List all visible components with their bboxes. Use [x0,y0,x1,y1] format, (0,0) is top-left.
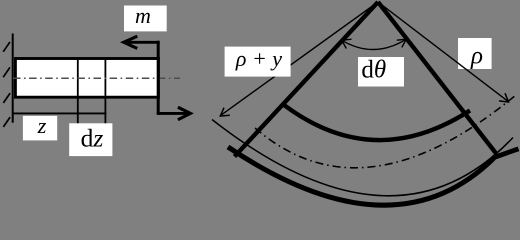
svg-text:ρ: ρ [470,43,483,70]
neutral axis arc (dash-dot) [255,95,517,168]
wall hatch 3 [3,93,10,103]
moment arrow bottom head [178,107,191,120]
label box m [124,6,167,32]
moment bracket vertical [157,41,160,115]
wall hatch 4 [3,117,10,127]
wall hatch 2 [3,67,10,77]
svg-text:z: z [37,113,47,138]
svg-text:ρ + y: ρ + y [235,46,282,71]
moment arrow bottom shaft [157,112,188,115]
svg-text:dz: dz [81,124,104,153]
d-theta arrowhead left [342,39,352,48]
beam section divider at z [77,60,79,126]
wall hatch 1 [3,42,10,52]
d-theta angle arc [342,39,407,49]
right radial line of bent element [378,2,497,154]
beam centerline [13,77,180,79]
beam section divider at z+dz [104,60,106,126]
wall line [12,34,14,123]
top fiber arc (thick) [283,104,470,140]
left radial line of bent element [235,2,379,157]
rho arrowhead [499,93,508,102]
bottom fiber arc right end cap [493,149,519,158]
d-theta arrowhead right [397,39,407,47]
label box rho [458,38,492,69]
moment arrow top head [124,36,138,48]
rho dimension line [378,2,508,101]
beam outline [15,59,158,98]
svg-text:m: m [135,3,151,28]
label box rho+y [225,47,291,77]
z dimension line [12,112,106,114]
label box dz [69,123,112,156]
svg-text:dθ: dθ [361,57,386,84]
fiber arc at y (thin) [212,120,513,196]
moment arrow top shaft [126,41,160,44]
bottom fiber arc (thick) [228,147,494,205]
label box z [23,116,57,141]
rho+y arrowhead [220,108,230,116]
label box d-theta [358,57,404,87]
rho+y dimension line [222,2,379,115]
